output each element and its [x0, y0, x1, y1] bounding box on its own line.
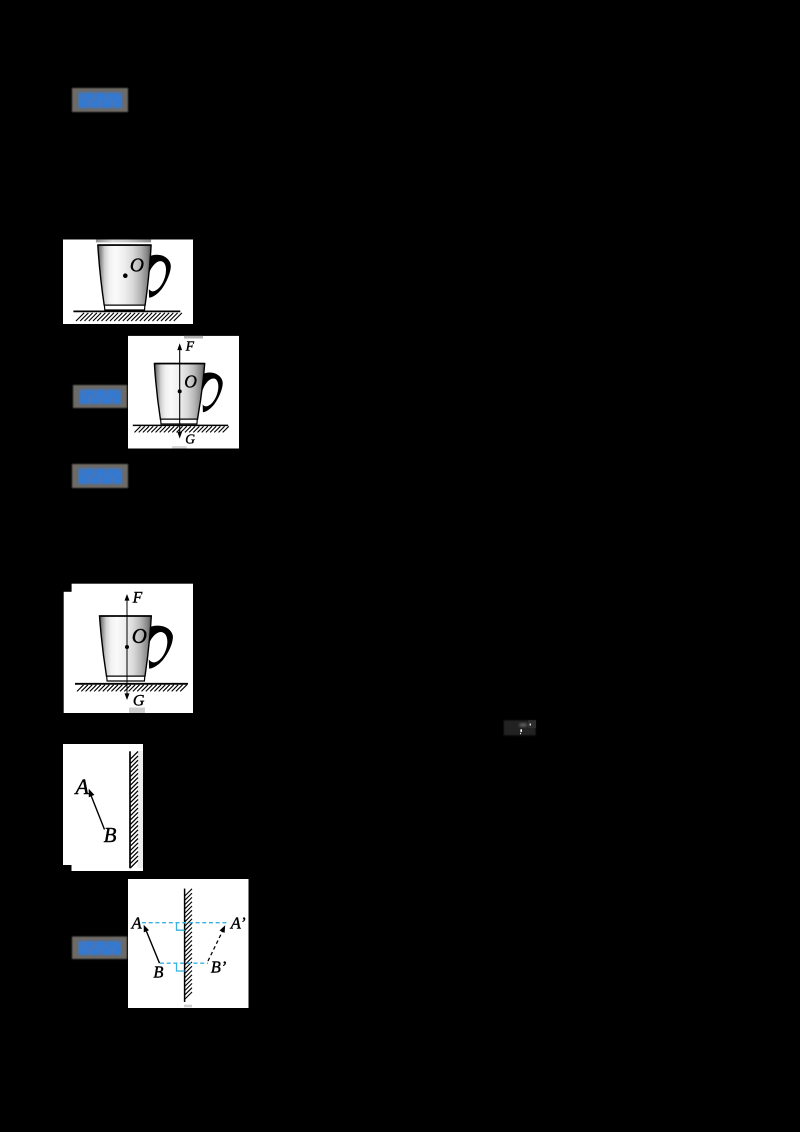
svg-text:A: A	[131, 913, 143, 932]
svg-text:F: F	[132, 589, 143, 606]
figure 4 frame (white image box, notched bottom-left)	[63, 744, 143, 865]
badge 1 (section tag): blue glyph blob text	[79, 93, 123, 109]
figure 2 arrowhead F (up)	[177, 343, 182, 350]
figure 2 mug handle (black ear)	[202, 372, 223, 412]
figure 2 ground hatching	[135, 426, 229, 432]
figure 2 dot O	[178, 389, 182, 393]
figure 3 dot O	[125, 645, 129, 649]
badge 2 (answer tag): blue glyph blob text	[80, 390, 122, 405]
figure 4 faint gray band right of mirror	[137, 751, 143, 868]
figure 5 dashed arrow B' to A'	[208, 930, 223, 962]
figure 3 force line F-G through O	[126, 600, 128, 695]
figure 5 solid arrow B to A	[146, 929, 160, 963]
svg-text:O: O	[130, 256, 144, 277]
figure 4 mirror hatching	[130, 752, 138, 869]
figure 1 ground line	[73, 310, 180, 312]
figure 3 mug body (tapered, metallic gradient)	[100, 616, 152, 676]
figure 1 clipped cup-top gray band	[96, 240, 151, 243]
badge 3 (analysis tag): gray highlight box	[72, 464, 128, 488]
faint inline-formula block BB' (dark mode remnant)	[504, 720, 536, 735]
svg-text:G: G	[133, 692, 145, 709]
svg-text:B’: B’	[211, 957, 227, 976]
figure 3 mug handle (black ear)	[148, 626, 173, 669]
figure 1 mug base ring	[104, 305, 144, 310]
figure 3 arrowhead F (up)	[125, 594, 130, 601]
figure 5 cyan dashed normal A-A'	[142, 922, 227, 924]
figure 3 ground line	[75, 683, 188, 685]
badge 2 (answer tag): gray highlight box	[73, 385, 127, 408]
figure 1 mug handle (black ear)	[148, 255, 171, 298]
figure 2 mug base ring	[161, 419, 198, 424]
figure 1 frame (white image box)	[63, 240, 193, 325]
figure 5 frame (white image box)	[128, 879, 249, 1008]
figure 3 leftover gray patch at bottom	[129, 708, 145, 714]
figure 2 frame (white image box)	[128, 336, 239, 449]
svg-text:G: G	[185, 432, 195, 447]
figure 2 ground line	[133, 424, 228, 426]
figure 5 right-angle mark at B normal	[177, 963, 185, 971]
figure 1 mug body (tapered, metallic gradient)	[98, 245, 151, 305]
figure 5 mirror hatching	[185, 889, 192, 999]
figure 2 leftover gray smudge at bottom	[172, 446, 187, 449]
svg-text:B: B	[104, 823, 117, 847]
figure 5 leftover gray patch at bottom of mirror	[184, 1005, 192, 1008]
figure 4 arrow B to A	[90, 794, 104, 830]
svg-text:F: F	[185, 338, 195, 353]
figure 2 leftover gray band at top	[184, 336, 203, 339]
figure 3 frame (white image box, stepped top-left corner)	[72, 584, 193, 713]
svg-text:A: A	[74, 774, 90, 799]
figure 1 ground hatching	[76, 313, 182, 321]
figure 5 right-angle mark at A normal	[177, 923, 185, 931]
figure 2 mug body (tapered, metallic gradient)	[154, 364, 204, 420]
figure 5 cyan dashed normal B-B'	[160, 962, 208, 964]
figure 3 ground hatching	[77, 685, 187, 692]
badge 3 (analysis tag): blue glyph blob text	[79, 469, 123, 485]
badge 4 (solution tag): blue glyph blob text	[79, 941, 122, 955]
badge 1 (section tag): gray highlight box	[72, 88, 128, 112]
badge 4 (solution tag): gray highlight box	[72, 937, 127, 960]
figure 2 force line F-G through O	[179, 349, 181, 434]
svg-text:O: O	[184, 372, 197, 392]
figure 2 arrowhead G (down)	[177, 432, 182, 439]
figure 3 arrowhead G (down)	[125, 693, 130, 700]
svg-text:O: O	[132, 624, 147, 648]
figure 1 center-of-gravity dot O	[123, 273, 128, 278]
figure 4 mirror line	[129, 751, 131, 868]
figure 3 mug base ring	[107, 676, 145, 681]
svg-text:A’: A’	[230, 913, 246, 932]
svg-text:B: B	[153, 962, 163, 981]
figure 5 mirror line	[184, 889, 186, 1002]
